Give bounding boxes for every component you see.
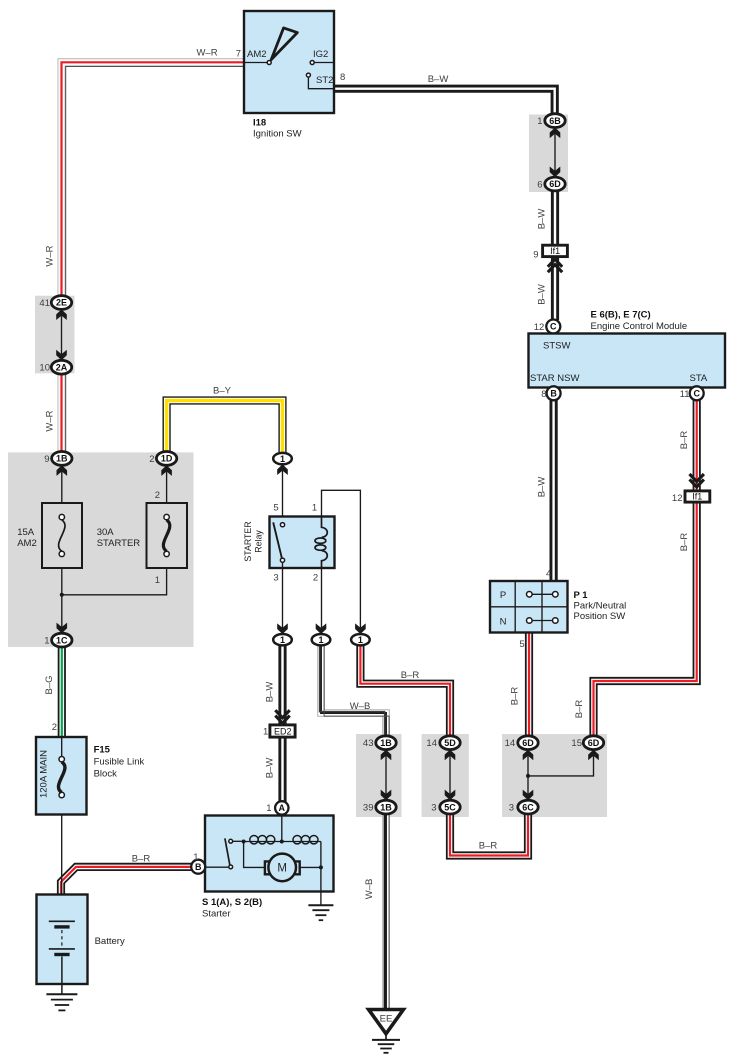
svg-text:Block: Block (94, 769, 117, 780)
svg-text:120A MAIN: 120A MAIN (39, 750, 50, 798)
ignition SW AM2 contact lead (244, 62, 267, 64)
connector 5D pin 14 (440, 736, 460, 750)
connector 1B pin 9 (52, 452, 72, 466)
arrow into 5D pin 14 (445, 750, 456, 761)
svg-text:5D: 5D (444, 738, 456, 748)
svg-text:If1: If1 (692, 491, 702, 501)
wire B-R: park/neutral SW pin 5 to connector 6D pin 14 (525, 633, 533, 737)
relay coil (315, 517, 327, 569)
svg-text:B–R: B–R (509, 687, 520, 706)
svg-text:2E: 2E (56, 298, 67, 308)
arrow into 6D pin 15 (588, 750, 599, 761)
svg-text:W–B: W–B (350, 701, 371, 712)
svg-text:5C: 5C (444, 802, 456, 812)
svg-text:15A: 15A (17, 527, 35, 538)
svg-text:M: M (277, 862, 287, 874)
svg-text:Park/Neutral: Park/Neutral (574, 601, 627, 612)
ignition SW AM2 contact (267, 61, 271, 65)
starter relay body (270, 517, 335, 569)
svg-text:9: 9 (44, 454, 49, 465)
fuse 1D feed line (166, 467, 168, 503)
svg-text:6C: 6C (522, 802, 534, 812)
flow chevrons toward If1 (690, 474, 704, 487)
svg-text:Starter: Starter (202, 908, 231, 919)
EE ground lead (385, 1034, 387, 1040)
ignition SW IG2 lead (314, 62, 334, 64)
starter S1/S2 body (205, 816, 334, 892)
svg-text:1: 1 (358, 635, 363, 645)
ignition SW ST2 contact (306, 73, 310, 77)
battery cell symbol (49, 921, 75, 994)
svg-text:B–W: B–W (265, 682, 276, 703)
svg-text:2: 2 (155, 490, 160, 501)
svg-text:4: 4 (546, 569, 551, 580)
connector 1D pin 2 (156, 452, 176, 466)
svg-text:B–W: B–W (537, 477, 548, 498)
fusible link block F15 body (36, 737, 87, 815)
svg-text:AM2: AM2 (17, 538, 37, 549)
svg-text:IG2: IG2 (313, 49, 328, 60)
ground inside starter circuit (308, 905, 333, 920)
relay coil-ground connector oval (312, 634, 331, 645)
arrow into 2A (56, 350, 67, 361)
connector 2A pin 10 (51, 360, 71, 374)
svg-text:2: 2 (52, 722, 57, 733)
svg-text:W–R: W–R (196, 47, 217, 58)
svg-text:B–R: B–R (132, 853, 151, 864)
ground below battery (46, 994, 77, 1010)
starter switch arm (225, 838, 230, 865)
svg-text:STARTER: STARTER (243, 521, 253, 561)
120A MAIN fusible link (58, 737, 64, 798)
connector 1C pin 1 (52, 633, 72, 647)
ignition SW IG2 contact (310, 61, 314, 65)
motor to ground lead (300, 842, 321, 906)
arrow into relay coil-feed connector (355, 623, 366, 634)
svg-text:3: 3 (509, 803, 514, 814)
relay pin 1 loop wire (322, 490, 361, 632)
svg-text:STARTER: STARTER (97, 538, 141, 549)
svg-text:1C: 1C (56, 635, 68, 645)
svg-text:6D: 6D (522, 738, 534, 748)
junction connector ED2 (270, 725, 295, 737)
svg-text:B–Y: B–Y (213, 386, 232, 397)
svg-text:Battery: Battery (95, 936, 125, 947)
svg-text:1: 1 (280, 454, 285, 464)
svg-text:5: 5 (273, 503, 278, 514)
svg-text:39: 39 (363, 803, 374, 814)
svg-text:B–R: B–R (574, 700, 585, 719)
motor brush left (265, 861, 270, 874)
svg-text:B: B (550, 389, 557, 399)
arrow into 6D (550, 167, 561, 178)
starter solenoid coils (244, 836, 321, 844)
connector 6D/6C gray housing (502, 734, 607, 817)
svg-text:5: 5 (519, 639, 524, 650)
svg-text:STAR NSW: STAR NSW (530, 373, 579, 384)
ground symbol EE (372, 1040, 400, 1053)
svg-text:B–R: B–R (401, 670, 420, 681)
junction block 6B/6D gray housing (529, 115, 568, 193)
ECM connector pin 8 B (547, 386, 561, 400)
svg-text:10: 10 (39, 363, 50, 374)
wire B-W: ignition SW ST2 to junction 6B (334, 89, 555, 115)
arrow into 1B pin 39 (381, 790, 392, 801)
svg-text:43: 43 (363, 738, 374, 749)
fuse output bus (62, 568, 167, 632)
connector 5C pin 3 (440, 800, 460, 814)
arrow into 6D pin 14 (523, 750, 534, 761)
connector 1B/1B gray housing (356, 734, 402, 817)
wire B-Y: fuse box 1D to starter relay connector (167, 401, 283, 454)
starter terminal B (191, 860, 205, 874)
svg-text:1B: 1B (380, 802, 392, 812)
svg-text:1: 1 (312, 503, 317, 514)
svg-text:1: 1 (155, 575, 160, 586)
starter terminal A lead (281, 815, 283, 842)
junction 1B-1B internal link (385, 752, 387, 798)
engine control module body (529, 334, 726, 388)
ignition switch I18 body (244, 11, 334, 113)
connector 1B pin 39 (376, 800, 396, 814)
fuse/relay box gray housing (8, 452, 194, 647)
svg-text:11: 11 (680, 389, 690, 400)
svg-text:Ignition SW: Ignition SW (253, 128, 302, 139)
svg-text:1: 1 (266, 803, 271, 814)
svg-text:1: 1 (537, 116, 542, 127)
arrow into 2E (56, 309, 67, 320)
svg-text:W–B: W–B (364, 879, 375, 900)
battery body (37, 895, 88, 985)
junction node coil center (280, 840, 284, 844)
svg-text:8: 8 (340, 72, 345, 83)
svg-text:6D: 6D (549, 179, 561, 189)
svg-text:1B: 1B (56, 454, 68, 464)
starter switch contact top (229, 839, 242, 843)
connector 6C pin 3 (518, 800, 538, 814)
arrow into 6B (550, 128, 561, 139)
svg-text:12: 12 (534, 322, 545, 333)
junction node motor right (319, 865, 323, 869)
svg-text:6D: 6D (588, 738, 600, 748)
relay pin 5 lead (282, 470, 284, 522)
svg-text:3: 3 (431, 803, 436, 814)
svg-text:B–R: B–R (679, 431, 690, 450)
svg-text:15: 15 (571, 738, 582, 749)
svg-text:Relay: Relay (254, 530, 264, 553)
svg-text:P: P (500, 590, 506, 601)
wire B-R: connector 5C pin 3 to connector 6C pin 3 (450, 813, 528, 856)
junction node in 6D/6C block (526, 774, 530, 778)
svg-text:B–R: B–R (679, 533, 690, 552)
svg-text:1: 1 (263, 727, 268, 738)
arrow into 1B pin 43 (381, 750, 392, 761)
ignition SW ST2 lead (308, 77, 334, 89)
relay coil-feed connector oval (351, 634, 370, 645)
junction 2E-2A internal link (61, 312, 63, 358)
svg-text:9: 9 (533, 250, 538, 261)
svg-text:E 6(B), E 7(C): E 6(B), E 7(C) (591, 310, 651, 321)
svg-text:Engine Control Module: Engine Control Module (591, 321, 688, 332)
connector 2E pin 41 (51, 296, 71, 310)
svg-text:B–W: B–W (265, 758, 276, 779)
svg-text:30A: 30A (97, 527, 115, 538)
relay pin 2 lead (321, 568, 323, 632)
wire B-R: relay coil feed connector to connector 5D pin 14 (360, 645, 450, 736)
P1 contact row N (527, 618, 559, 624)
svg-text:Position SW: Position SW (574, 611, 626, 622)
park/neutral position switch P1 body (490, 581, 568, 633)
connector 6D pin 14 (518, 736, 538, 750)
junction connector If1 (second) (685, 491, 710, 502)
junction 5D-5C internal link (449, 752, 451, 798)
svg-text:W–R: W–R (45, 410, 56, 431)
wire B-G: fuse box 1C to fusible link block F15 (58, 646, 66, 738)
wire W-B: starter relay pin 2 connector to connector 1B pin 43 (321, 645, 386, 736)
svg-text:STA: STA (690, 373, 708, 384)
svg-text:2A: 2A (56, 362, 68, 372)
arrow into relay output connector (277, 623, 288, 634)
svg-text:B: B (195, 862, 202, 872)
fuse 30A STARTER body (147, 503, 188, 568)
F15 to battery lead (61, 815, 63, 922)
junction node coil left (242, 840, 246, 844)
svg-text:41: 41 (39, 298, 50, 309)
svg-text:B–W: B–W (537, 284, 548, 305)
wire B-R: starter terminal B to battery (61, 867, 191, 895)
arrow into 6C pin 3 (523, 790, 534, 801)
junction connector If1 (543, 245, 568, 256)
svg-text:STSW: STSW (543, 340, 570, 351)
svg-text:S 1(A), S 2(B): S 1(A), S 2(B) (202, 897, 262, 908)
svg-text:7: 7 (236, 49, 241, 60)
wire W-B: connector 1B pin 39 to ground point EE (382, 813, 390, 1010)
wire B-R: junction If1 to connector 6D pin 15 (594, 501, 697, 736)
ignition SW key lever (271, 28, 297, 60)
ECM connector pin 11 C (690, 386, 704, 400)
junction 6B-6D internal link (554, 130, 556, 175)
junction block 2E/2A gray housing (35, 296, 75, 374)
svg-text:1D: 1D (161, 454, 173, 464)
svg-text:14: 14 (505, 738, 516, 749)
svg-text:6B: 6B (549, 116, 561, 126)
svg-text:W–R: W–R (45, 245, 56, 266)
svg-text:B–G: B–G (44, 675, 55, 694)
motor brush right (295, 861, 300, 874)
connector 1B pin 43 (376, 736, 396, 750)
relay switch contacts and arm (273, 522, 284, 562)
wire B-R: ECM pin 11 C to junction If1 (693, 400, 701, 491)
arrow into relay feed connector (277, 464, 288, 475)
svg-text:C: C (693, 389, 700, 399)
svg-text:2: 2 (149, 454, 154, 465)
svg-text:B–W: B–W (428, 74, 449, 85)
connector 6B pin 1 (545, 114, 565, 128)
svg-text:ST2: ST2 (316, 75, 333, 86)
svg-text:N: N (500, 616, 507, 627)
svg-text:C: C (550, 322, 557, 332)
svg-text:12: 12 (672, 493, 683, 504)
motor M1 (268, 854, 296, 882)
svg-text:1: 1 (318, 635, 323, 645)
relay output connector oval (273, 634, 292, 645)
svg-text:3: 3 (273, 573, 278, 584)
svg-text:F15: F15 (94, 745, 111, 756)
connector 5D/5C gray housing (422, 734, 469, 817)
svg-text:1: 1 (44, 636, 49, 647)
svg-text:B–R: B–R (479, 841, 498, 852)
arrow into 1C (57, 623, 68, 634)
svg-text:2: 2 (313, 573, 318, 584)
svg-text:ED2: ED2 (274, 726, 292, 736)
ground point EE triangle (369, 1010, 404, 1034)
fuse 1B feed line (61, 467, 63, 503)
junction 6D/6D/6C internal links (528, 752, 594, 798)
svg-text:14: 14 (426, 738, 437, 749)
starter motor feed (244, 842, 265, 868)
arrow into relay coil-gnd connector (316, 623, 327, 634)
arrow into 1B (57, 465, 68, 476)
relay pin 3 lead (282, 563, 284, 632)
svg-text:1: 1 (193, 852, 198, 863)
wire B-W: junction ED2 to starter terminal A (278, 737, 286, 803)
svg-text:P 1: P 1 (574, 590, 589, 601)
fuse 15A AM2 body (42, 503, 82, 568)
connector 6D pin 15 (583, 736, 603, 750)
svg-text:1: 1 (280, 635, 285, 645)
wire W-R: ignition SW AM2 to junction 2E (62, 62, 245, 296)
svg-text:I18: I18 (253, 117, 266, 128)
junction node below fuses (60, 593, 64, 597)
svg-text:Fusible Link: Fusible Link (94, 757, 145, 768)
P1 grid lines (490, 581, 568, 633)
arrow into 1D (161, 465, 172, 476)
starter terminal A (275, 801, 288, 814)
arrow into 5C pin 3 (445, 790, 456, 801)
flow chevrons toward If1 (548, 259, 562, 272)
wire B-W: ECM pin 8 B to park/neutral SW pin 4 (549, 400, 557, 582)
svg-text:8: 8 (541, 389, 546, 400)
wire B-W: junction 6D to junction If1 (551, 191, 559, 245)
svg-text:1B: 1B (380, 738, 392, 748)
flow chevrons toward ED2 (275, 710, 289, 723)
relay feed connector oval (273, 453, 292, 464)
connector 6D pin 6 (545, 177, 565, 191)
wire B-W: junction If1 to ECM pin 12 C (551, 256, 559, 320)
svg-text:6: 6 (537, 180, 542, 191)
svg-text:B–W: B–W (537, 209, 548, 230)
svg-text:AM2: AM2 (247, 49, 267, 60)
svg-text:A: A (279, 803, 286, 813)
svg-text:EE: EE (380, 1013, 393, 1024)
P1 contact row P (527, 592, 559, 598)
starter switch contact bottom (205, 865, 232, 869)
ECM connector pin 12 C (546, 320, 560, 334)
wire B-W: starter relay pin 3 connector to junction ED2 (278, 645, 286, 725)
wire W-R: junction 2A to fuse box 1B (58, 374, 66, 452)
svg-text:If1: If1 (550, 246, 560, 256)
